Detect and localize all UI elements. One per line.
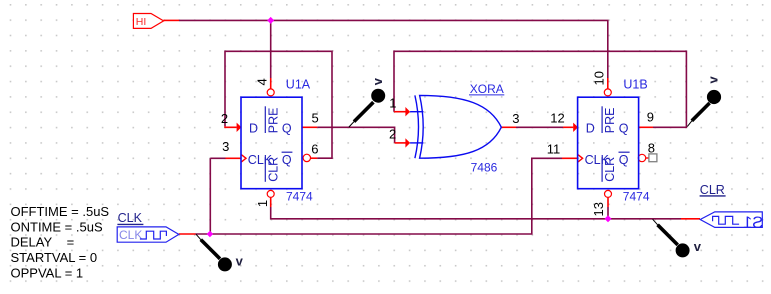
svg-text:U1B: U1B [623,78,647,92]
svg-text:CLR: CLR [700,183,725,197]
svg-text:DELAY =: DELAY = [11,234,75,249]
svg-text:v: v [694,239,702,254]
svg-text:D: D [249,121,258,135]
svg-text:CLK: CLK [118,211,143,225]
svg-text:3: 3 [512,111,519,126]
svg-text:7474: 7474 [623,189,650,203]
svg-text:13: 13 [591,202,606,216]
svg-text:CLK: CLK [119,228,142,242]
svg-text:ONTIME = .5uS: ONTIME = .5uS [11,220,103,235]
svg-text:OFFTIME = .5uS: OFFTIME = .5uS [11,204,110,219]
svg-text:Q: Q [282,122,292,136]
svg-text:2: 2 [221,111,228,126]
svg-text:HI: HI [136,16,147,28]
svg-text:PRE: PRE [266,107,280,133]
svg-text:5: 5 [312,110,319,125]
svg-text:v: v [236,253,244,268]
svg-text:3: 3 [222,139,229,154]
svg-text:7474: 7474 [286,189,313,203]
svg-text:Q: Q [619,122,629,136]
svg-text:8: 8 [648,140,655,155]
svg-text:4: 4 [255,78,270,85]
svg-text:11: 11 [547,142,561,157]
svg-text:10: 10 [592,71,607,85]
svg-text:S1: S1 [743,214,763,232]
svg-text:Q: Q [619,153,629,167]
svg-text:XORA: XORA [470,82,504,96]
svg-text:CLR: CLR [266,157,280,182]
svg-text:2: 2 [389,127,396,142]
svg-text:v: v [370,77,385,85]
svg-text:12: 12 [550,111,564,126]
svg-text:Q: Q [282,153,292,167]
svg-text:9: 9 [647,110,654,125]
svg-text:1: 1 [255,200,270,207]
svg-text:1: 1 [389,96,396,111]
svg-text:PRE: PRE [603,107,617,133]
svg-text:STARTVAL = 0: STARTVAL = 0 [11,250,98,265]
svg-text:v: v [705,76,720,84]
svg-text:6: 6 [311,141,318,156]
svg-text:U1A: U1A [286,78,311,92]
svg-text:OPPVAL = 1: OPPVAL = 1 [11,266,84,281]
svg-text:7486: 7486 [471,160,498,174]
svg-text:CLR: CLR [603,157,617,182]
svg-text:D: D [586,121,595,135]
